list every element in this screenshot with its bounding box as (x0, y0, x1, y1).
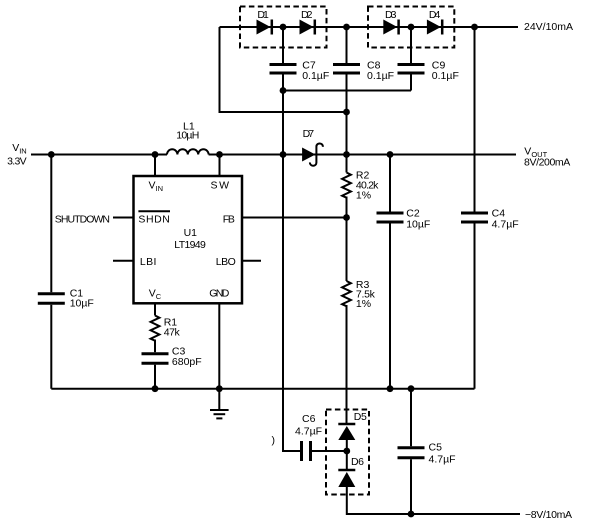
op-amp U1 LT1949 IC box (134, 176, 243, 303)
node 24V junction (471, 24, 478, 31)
wire R2 top (346, 155, 348, 173)
diode D1 (257, 9, 272, 34)
wire C5 branch (410, 389, 412, 514)
wire C2 branch (389, 155, 391, 389)
wire 24V output vertical x=474.5 through C4 (474, 27, 476, 389)
svg-text:10µF: 10µF (406, 219, 430, 231)
capacitor C8 (333, 60, 394, 83)
node D7 anode / pump (280, 151, 287, 158)
svg-text:24V/10mA: 24V/10mA (524, 21, 573, 33)
svg-text:4.7µF: 4.7µF (295, 426, 322, 438)
node L1 left (152, 151, 159, 158)
node C2 bottom (387, 385, 394, 392)
wire VC pin to R1 (154, 303, 156, 315)
wire LBI stub (113, 260, 134, 262)
svg-text:FB: FB (223, 213, 235, 225)
capacitor C7 (270, 60, 330, 83)
wire R2 bottom to FB node to R3 top (346, 197, 348, 282)
svg-text:0.1µF: 0.1µF (432, 70, 459, 82)
node FB junction (343, 214, 350, 221)
wire R3 bottom down to D5 cathode (346, 305, 348, 423)
inductor L1 (167, 120, 209, 154)
wire LBO stub (242, 260, 261, 262)
label VOUT 8V/200mA (524, 146, 570, 169)
svg-text:LT1949: LT1949 (174, 239, 206, 251)
svg-text:D6: D6 (351, 456, 364, 468)
svg-text:D7: D7 (303, 128, 315, 140)
resistor R3 (342, 279, 376, 310)
svg-text:LBO: LBO (216, 256, 236, 268)
node C6/D5/D6 junction (343, 448, 350, 455)
diode D6 (338, 456, 364, 487)
wire line A C7-bottom to C9-bottom at y=90.5 (283, 90, 411, 92)
wire C6 right plate to D5/D6 node (312, 450, 347, 452)
svg-text:47k: 47k (164, 327, 181, 339)
node L1 right / SW (216, 151, 223, 158)
dashed box D3 D4 (368, 7, 454, 48)
dashed box D5 D6 (326, 410, 369, 495)
node D3-D4 junction (408, 24, 415, 31)
svg-text:U1: U1 (184, 227, 198, 239)
wire C3 to ground rail (154, 365, 156, 389)
svg-text:SW: SW (211, 180, 230, 192)
wire R1 to C3 (154, 340, 156, 353)
node C5 top (408, 385, 415, 392)
svg-text:3.3V: 3.3V (7, 155, 27, 167)
capacitor C1 (38, 287, 94, 309)
dashed box D1 D2 (240, 7, 327, 48)
svg-text:0.1µF: 0.1µF (302, 70, 329, 82)
wire GND pin to rail (218, 303, 220, 388)
wire FB to divider (242, 217, 347, 219)
svg-text:SHDN: SHDN (138, 213, 170, 225)
label VIN 3.3V (7, 142, 27, 167)
resistor R2 (342, 169, 379, 201)
node D2-D3 junction (343, 24, 350, 31)
wire bottom ground rail (51, 388, 474, 390)
node C5 bottom -8V (408, 511, 415, 518)
svg-text:D1: D1 (257, 9, 269, 21)
node C3 ground (152, 385, 159, 392)
node VOUT at D7 cathode (343, 151, 350, 158)
resistor R1 (151, 316, 181, 341)
svg-text:D5: D5 (354, 411, 367, 423)
svg-text:D4: D4 (429, 9, 441, 21)
wire left rail through C1 (50, 155, 52, 389)
svg-text:C6: C6 (302, 413, 316, 425)
svg-text:LBI: LBI (140, 256, 157, 268)
svg-text:680pF: 680pF (172, 356, 202, 368)
diode D5 (338, 411, 367, 440)
node GND pin ground (216, 385, 223, 392)
svg-text:4.7µF: 4.7µF (492, 219, 519, 231)
svg-text:−8V/10mA: −8V/10mA (525, 509, 572, 521)
wire SW pin (219, 155, 221, 177)
svg-text:4.7µF: 4.7µF (429, 454, 456, 466)
diode D4 (427, 9, 442, 34)
node line B junction (343, 109, 350, 116)
svg-text:1%: 1% (356, 189, 371, 201)
wire C8 vertical branch x=346.5 (346, 27, 348, 155)
wire SHUTDOWN to SHDN pin (113, 217, 134, 219)
wire top-left corner from D1 anode down to line B (220, 27, 347, 112)
node C2 top (387, 151, 394, 158)
wire top 24V rail (220, 26, 519, 28)
svg-text:GND: GND (209, 288, 229, 300)
wire D6 anode to -8V rail (347, 487, 520, 514)
svg-text:10µF: 10µF (70, 298, 94, 310)
wire C9 vertical branch (410, 27, 412, 91)
svg-text:8V/200mA: 8V/200mA (524, 157, 570, 169)
wire node to D6 cathode (346, 451, 348, 469)
svg-text:C4: C4 (492, 208, 506, 220)
wire VIN pin (154, 155, 156, 177)
wire D5 anode to node (346, 440, 348, 451)
svg-text:C2: C2 (406, 208, 420, 220)
wire main rail VIN to VOUT y=154.5 (31, 154, 516, 156)
svg-text:0.1µF: 0.1µF (367, 70, 394, 82)
wire C6 branch from pump node (283, 155, 300, 452)
svg-text:D2: D2 (301, 9, 313, 21)
wire vertical pump node x=283 (C7 branch) (282, 27, 284, 155)
node VIN junction (48, 151, 55, 158)
svg-text:C5: C5 (429, 442, 443, 454)
diode D2 (300, 9, 315, 34)
node line A junction (280, 87, 287, 94)
capacitor C3 (142, 346, 202, 368)
ground (210, 389, 229, 419)
capacitor C2 (377, 208, 431, 231)
capacitor C4 (461, 208, 519, 231)
capacitor C6 (295, 413, 322, 461)
svg-text:10µH: 10µH (176, 130, 199, 142)
capacitor C5 (398, 442, 456, 466)
svg-text:SHUTDOWN: SHUTDOWN (55, 213, 110, 225)
capacitor C9 (398, 60, 459, 83)
svg-text:1%: 1% (356, 298, 371, 310)
diode D7 schottky (302, 128, 323, 166)
svg-text:): ) (272, 435, 276, 447)
svg-text:D3: D3 (385, 9, 397, 21)
diode D3 (383, 9, 398, 34)
node D1-D2 junction (280, 24, 287, 31)
